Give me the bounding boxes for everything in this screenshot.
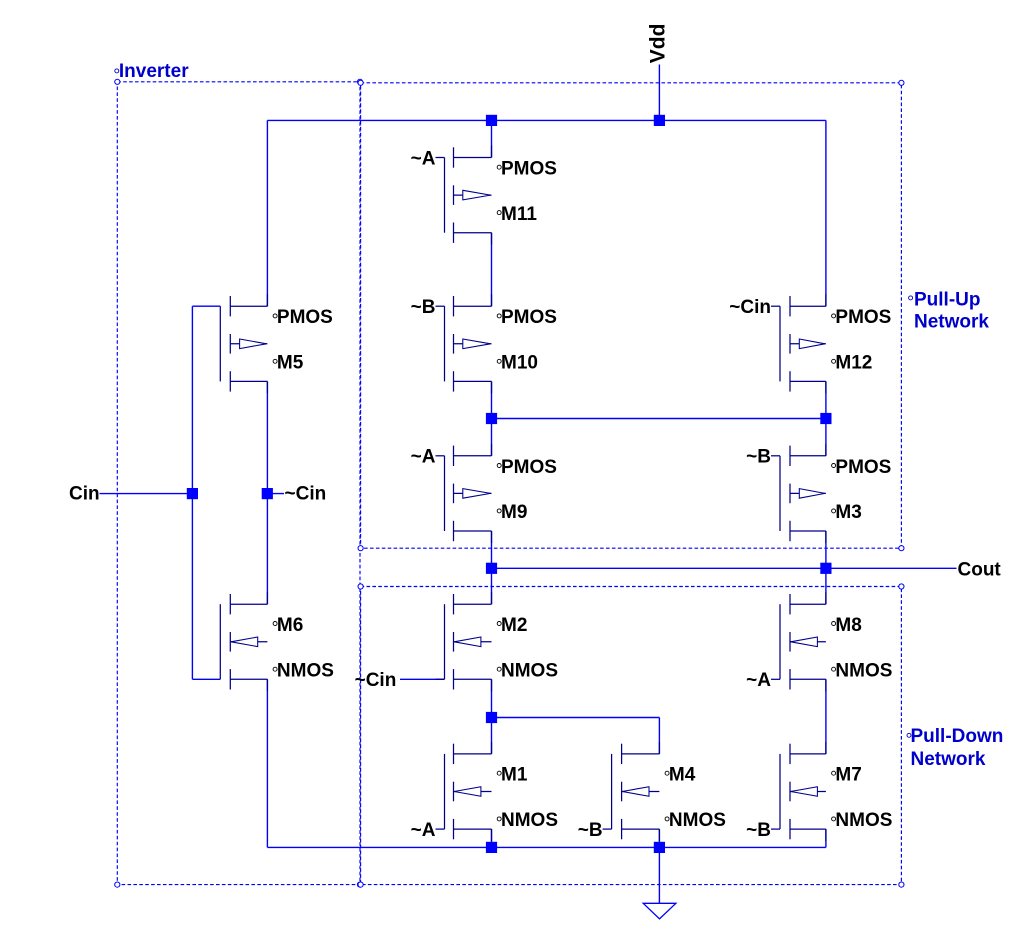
wire Cin input lead (100, 493, 193, 495)
wire middle column Vdd to M11 drain (491, 120, 493, 157)
svg-text:PMOS: PMOS (501, 457, 557, 478)
wire branch to M4 drain (492, 718, 660, 754)
node ground rail middle (486, 842, 497, 853)
wire Cout rail to M8 drain (825, 568, 827, 604)
svg-text:M12: M12 (835, 353, 872, 374)
node Vdd-rail / Vdd stem (654, 115, 665, 126)
wire ~Cin to M2 gate (400, 678, 445, 680)
svg-text:NMOS: NMOS (835, 810, 892, 831)
svg-text:~B: ~B (411, 297, 436, 318)
svg-text:M3: M3 (835, 502, 861, 523)
svg-text:PMOS: PMOS (501, 307, 557, 328)
svg-text:~A: ~A (411, 447, 436, 468)
svg-text:Network: Network (911, 749, 986, 770)
wire M4 source to ground rail (658, 829, 660, 847)
node middle rail left (486, 413, 497, 424)
transistor M4 (NMOS) (603, 742, 726, 841)
transistor M12 (PMOS) (771, 294, 891, 393)
wire M7 source to ground rail (825, 829, 827, 847)
svg-text:~Cin: ~Cin (285, 483, 327, 504)
node M2/M1/M4 branch (486, 712, 497, 723)
Pull-Up Network dashed box (361, 83, 902, 548)
svg-text:NMOS: NMOS (501, 810, 558, 831)
wire Cout rail (492, 567, 957, 569)
wire M3 source to Cout rail (825, 531, 827, 568)
svg-text:~A: ~A (411, 820, 436, 841)
wire pull-up middle rail (492, 418, 826, 420)
svg-text:Inverter: Inverter (119, 61, 189, 82)
svg-text:M9: M9 (501, 502, 527, 523)
svg-text:~B: ~B (578, 820, 603, 841)
svg-text:Network: Network (914, 312, 989, 333)
node ground rail / ground stem (654, 842, 665, 853)
transistor M7 (NMOS) (771, 742, 892, 841)
transistor M1 (NMOS) (436, 742, 559, 841)
svg-text:PMOS: PMOS (835, 457, 891, 478)
svg-text:Cout: Cout (958, 559, 1002, 580)
wire M10 source to M9 drain (491, 381, 493, 455)
svg-text:PMOS: PMOS (277, 307, 333, 328)
label Pull-Down Network (907, 726, 1003, 770)
wire M11 source to M10 drain (491, 233, 493, 307)
transistor M9 (PMOS) (436, 444, 557, 543)
Pull-Down Network dashed box (361, 587, 902, 885)
transistor M2 (NMOS) (436, 592, 559, 691)
wire M9 source to Cout rail (491, 531, 493, 568)
wire M1 source to ground rail (491, 829, 493, 847)
wire inverter gate vertical (Cin) (191, 306, 193, 679)
wire ~Cin label stub (267, 493, 284, 495)
wire right column Vdd to M12 drain (825, 120, 827, 306)
wire Vdd top rail (267, 119, 826, 121)
wire M8 source to M7 drain (825, 679, 827, 754)
svg-text:M1: M1 (501, 765, 528, 786)
label Inverter (115, 61, 189, 82)
svg-text:NMOS: NMOS (669, 810, 726, 831)
transistor M8 (NMOS) (771, 592, 892, 691)
ground symbol (643, 903, 676, 919)
node middle rail right (820, 413, 831, 424)
svg-text:M5: M5 (277, 353, 304, 374)
svg-text:M4: M4 (669, 765, 696, 786)
svg-text:M7: M7 (835, 765, 861, 786)
svg-text:Cin: Cin (69, 483, 100, 504)
svg-text:M2: M2 (501, 615, 527, 636)
svg-text:~B: ~B (746, 820, 771, 841)
transistor M5 (PMOS) (220, 294, 333, 393)
wire inverter gate jog to M5 (192, 305, 220, 307)
box corner markers (115, 79, 904, 887)
svg-text:NMOS: NMOS (277, 661, 334, 682)
svg-text:~Cin: ~Cin (729, 297, 771, 318)
node Cin (187, 488, 198, 499)
label Pull-Up Network (909, 289, 990, 332)
svg-text:~B: ~B (746, 447, 771, 468)
svg-text:PMOS: PMOS (501, 159, 557, 180)
svg-text:Vdd: Vdd (647, 24, 670, 64)
wire M12 source to M3 drain (825, 381, 827, 455)
svg-text:PMOS: PMOS (835, 307, 891, 328)
node Vdd-rail / M11 column (486, 115, 497, 126)
svg-text:M6: M6 (277, 615, 303, 636)
wire Vdd stem (658, 65, 660, 121)
wire ground rail (267, 846, 826, 848)
wire inverter gate jog to M6 (192, 678, 220, 680)
wire M2 source to branch node (491, 679, 493, 717)
svg-text:M10: M10 (501, 353, 538, 374)
wire M6 source to ground rail (266, 679, 268, 847)
svg-text:~Cin: ~Cin (355, 670, 397, 691)
transistor M10 (PMOS) (436, 294, 557, 393)
node ~Cin (262, 488, 273, 499)
svg-text:NMOS: NMOS (835, 661, 892, 682)
svg-text:~A: ~A (746, 670, 771, 691)
svg-text:M8: M8 (835, 615, 861, 636)
svg-text:M11: M11 (501, 204, 537, 225)
node Cout left (486, 563, 497, 574)
wire ground rail to ground symbol (658, 847, 660, 903)
svg-text:NMOS: NMOS (501, 661, 558, 682)
wire Cout rail to M2 drain (491, 568, 493, 604)
wire branch node to M1 drain (491, 718, 493, 754)
node Cout right (820, 563, 831, 574)
Inverter dashed box (117, 82, 360, 885)
svg-text:Pull-Down: Pull-Down (911, 726, 1004, 747)
svg-text:~A: ~A (411, 148, 436, 169)
transistor M11 (PMOS) (436, 146, 557, 245)
svg-text:Pull-Up: Pull-Up (914, 289, 981, 310)
transistor M6 (NMOS) (220, 592, 334, 691)
transistor M3 (PMOS) (771, 444, 891, 543)
wire M5 drain to M6 drain (node ~Cin) (266, 381, 268, 604)
wire left rail upper (Vdd to M5 source) (266, 120, 268, 306)
